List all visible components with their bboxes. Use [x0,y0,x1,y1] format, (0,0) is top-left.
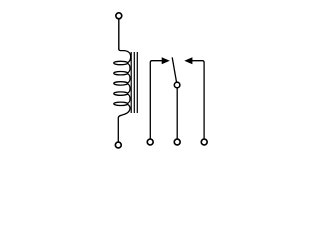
wire: left throw contact (NC) [150,61,162,139]
arrowhead: right fixed contact [184,57,192,64]
relay coil L1 loop 5 [114,102,128,105]
relay coil L1 bulge 2 [127,74,130,83]
relay coil L1 bulge 3 [127,84,130,93]
core line 1 [130,52,132,113]
pivot circle of common pole [174,82,180,88]
relay coil L1 loop 2 [114,72,128,75]
relay coil L1 bulge 1 [127,63,130,72]
relay coil L1 loop 4 [114,92,128,95]
core line 3 [136,52,138,113]
relay coil L1 loop 1 [114,61,128,64]
armature (movable contact) [172,57,176,82]
terminal pin 2 (coil bottom) [115,142,121,148]
wire: common pole lead [176,88,178,138]
relay coil L1 loop 3 [114,82,128,85]
terminal pin 5 (common) [174,139,180,145]
relay coil L1 winding entry [119,49,131,63]
arrowhead: left fixed contact [162,57,170,64]
wire: coil top lead [118,19,120,49]
wire: right throw contact (NO) [192,61,205,139]
terminal pin 1 (coil top) [116,13,122,19]
relay coil L1 bulge 4 [127,94,130,103]
terminal pin 4 (right throw) [201,139,207,145]
relay coil L1 winding exit [118,104,130,141]
terminal pin 3 (left throw) [147,139,153,145]
core line 2 [133,52,135,113]
